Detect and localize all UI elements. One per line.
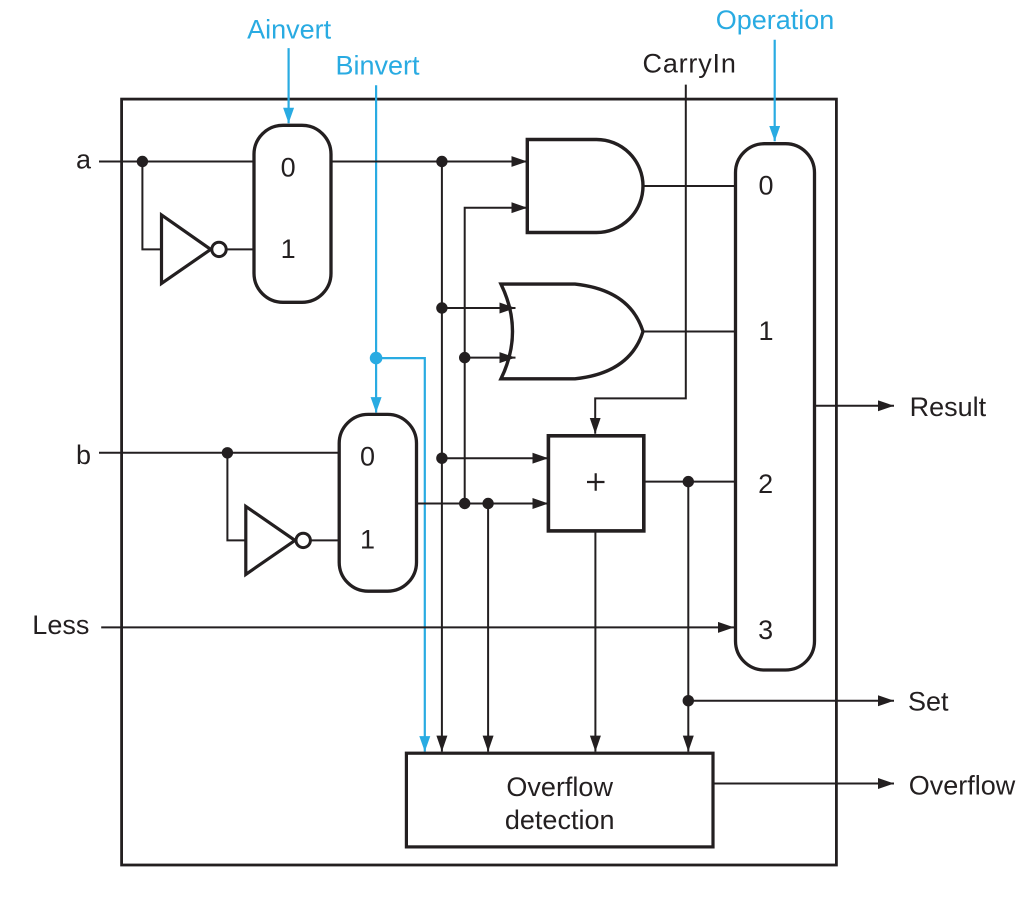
mux Binvert (2:1) <box>339 414 416 591</box>
svg-text:Ainvert: Ainvert <box>247 14 332 44</box>
overflow detection box <box>406 753 713 847</box>
inverter (b) <box>246 506 295 574</box>
outer ALU box <box>122 99 837 865</box>
svg-text:CarryIn: CarryIn <box>643 49 737 79</box>
svg-text:Set: Set <box>908 686 949 716</box>
svg-text:Operation: Operation <box>716 5 835 35</box>
mux Ainvert (2:1) <box>254 125 331 302</box>
node Binvert junction <box>370 352 383 365</box>
svg-text:1: 1 <box>360 524 375 554</box>
svg-text:Overflow: Overflow <box>506 772 613 802</box>
node b to OR <box>459 352 470 363</box>
wire Binvert vertical <box>375 85 377 412</box>
wire a input <box>99 161 255 163</box>
wire Operation select arrow <box>774 40 776 142</box>
wire a-mux output to AND <box>331 161 528 163</box>
wire adder output to mux in2 <box>644 481 735 483</box>
wire OR output to mux in1 <box>643 331 735 333</box>
wire inverter to b-mux <box>310 539 339 541</box>
svg-text:0: 0 <box>281 153 296 183</box>
node b junction <box>222 447 233 458</box>
node a junction <box>137 156 148 167</box>
wire b input <box>99 452 340 454</box>
wire Set output <box>688 700 894 702</box>
svg-text:2: 2 <box>758 469 773 499</box>
svg-text:0: 0 <box>758 170 773 200</box>
node adder output <box>683 476 694 487</box>
wire b to OR gate <box>465 357 516 359</box>
wire b to inverter <box>227 453 245 541</box>
node b-bus up <box>459 498 470 509</box>
adder plus sign <box>587 473 605 491</box>
svg-text:3: 3 <box>758 615 773 645</box>
inverter (a) <box>162 215 211 283</box>
svg-text:b: b <box>76 440 91 470</box>
wire adder output down <box>687 482 689 752</box>
mux Operation (4:1) <box>736 144 815 670</box>
wire Less to mux in3 <box>101 626 734 628</box>
inverter (b) bubble <box>296 533 310 547</box>
wire Result output <box>815 405 894 407</box>
svg-text:1: 1 <box>758 316 773 346</box>
inverter (a) bubble <box>212 242 226 256</box>
wire a to adder <box>442 457 549 459</box>
node a-bus top <box>436 156 447 167</box>
wire AND output to mux in0 <box>643 185 735 187</box>
node a to adder <box>436 453 447 464</box>
svg-text:detection: detection <box>505 805 615 835</box>
wire b to overflow detection <box>487 504 489 752</box>
wire Ainvert select arrow <box>288 48 290 123</box>
svg-text:Result: Result <box>910 392 987 422</box>
OR gate <box>501 284 643 379</box>
wire a to OR gate <box>442 307 516 309</box>
AND gate <box>527 140 643 233</box>
wire Binvert branch to overflow <box>376 358 425 751</box>
wire adder carry-out down <box>594 531 596 752</box>
wire b-mux output to adder <box>417 503 549 505</box>
svg-text:Overflow: Overflow <box>909 771 1016 801</box>
svg-text:0: 0 <box>360 442 375 472</box>
node a to OR <box>436 302 447 313</box>
wire inverter to mux <box>226 248 255 250</box>
svg-text:Less: Less <box>32 610 89 640</box>
svg-text:1: 1 <box>281 234 296 264</box>
wire CarryIn <box>595 85 686 434</box>
node b down to overflow <box>482 498 493 509</box>
wire a to inverter <box>142 162 161 250</box>
svg-text:Binvert: Binvert <box>335 51 420 81</box>
wire b vertical bus up <box>465 208 528 504</box>
wire Overflow output <box>713 783 894 785</box>
adder U+ <box>548 436 643 531</box>
node set junction <box>683 695 694 706</box>
svg-text:a: a <box>76 145 92 175</box>
wire a vertical bus <box>441 162 443 752</box>
